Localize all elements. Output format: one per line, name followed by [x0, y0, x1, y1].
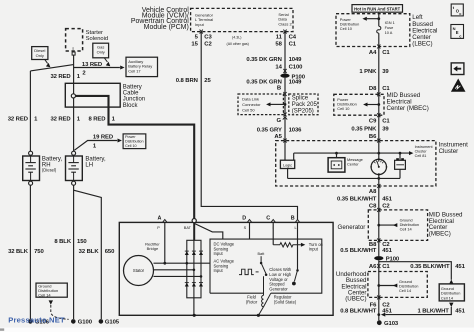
svg-text:C8: C8	[369, 204, 377, 210]
svg-text:1 PNK: 1 PNK	[359, 69, 377, 75]
svg-text:650: 650	[105, 249, 115, 255]
svg-text:Distribution: Distribution	[125, 140, 143, 144]
svg-text:Batt: Batt	[258, 252, 266, 256]
svg-text:C1: C1	[382, 119, 390, 125]
svg-text:Cell 50: Cell 50	[242, 107, 255, 112]
svg-text:A: A	[158, 215, 162, 221]
svg-text:C4: C4	[289, 34, 297, 40]
svg-text:Only: Only	[36, 53, 44, 58]
svg-text:Center (MBEC): Center (MBEC)	[387, 105, 429, 112]
svg-text:39: 39	[382, 127, 389, 133]
svg-text:32 RED: 32 RED	[8, 117, 28, 123]
svg-text:11: 11	[276, 34, 283, 40]
svg-text:A5: A5	[274, 134, 282, 140]
svg-text:32 RED: 32 RED	[50, 117, 70, 123]
svg-text:Splice: Splice	[292, 96, 309, 102]
svg-text:A4: A4	[369, 50, 377, 56]
svg-text:C3: C3	[204, 34, 212, 40]
svg-text:B: B	[277, 86, 281, 92]
svg-text:451: 451	[382, 308, 392, 314]
svg-text:L: L	[295, 226, 297, 230]
svg-text:(4.3L): (4.3L)	[232, 35, 241, 39]
svg-text:G100: G100	[78, 320, 93, 326]
svg-text:25: 25	[204, 78, 211, 84]
svg-text:Logic: Logic	[283, 164, 292, 168]
svg-text:Center: Center	[347, 162, 359, 167]
svg-text:451: 451	[382, 248, 392, 254]
svg-text:Generator: Generator	[269, 286, 288, 291]
svg-text:C1: C1	[289, 42, 297, 48]
svg-text:10 A: 10 A	[385, 30, 393, 35]
svg-text:14: 14	[275, 64, 282, 70]
svg-text:C2: C2	[204, 42, 212, 48]
svg-text:G103: G103	[384, 321, 399, 327]
svg-text:451: 451	[455, 264, 465, 270]
svg-text:Class 2: Class 2	[278, 21, 292, 26]
svg-text:39: 39	[382, 69, 389, 75]
svg-text:B: B	[291, 215, 295, 221]
svg-text:19 RED: 19 RED	[93, 134, 113, 140]
svg-text:Cell 81: Cell 81	[415, 154, 427, 158]
svg-text:P: P	[157, 226, 160, 230]
svg-text:Solenoid: Solenoid	[86, 36, 109, 42]
svg-text:Bridge: Bridge	[147, 246, 159, 251]
svg-text:1049: 1049	[289, 80, 303, 86]
svg-text:s: s	[72, 47, 74, 51]
svg-text:Cluster: Cluster	[439, 148, 459, 155]
svg-text:1036: 1036	[289, 127, 303, 133]
svg-text:0.8 BLK/WHT: 0.8 BLK/WHT	[340, 308, 377, 314]
svg-text:Input: Input	[214, 268, 224, 273]
svg-text:1 BLK/WHT: 1 BLK/WHT	[417, 308, 449, 314]
svg-text:(Solid State): (Solid State)	[274, 299, 297, 304]
svg-text:Data Link: Data Link	[242, 96, 259, 101]
svg-text:Starter: Starter	[86, 30, 103, 36]
svg-text:(All other gas): (All other gas)	[227, 42, 249, 46]
svg-text:G105: G105	[105, 320, 120, 326]
svg-text:58: 58	[275, 42, 282, 48]
svg-text:Cell 10: Cell 10	[337, 106, 350, 111]
svg-text:8 BLK: 8 BLK	[54, 239, 71, 245]
svg-text:0.35 BLK/WHT: 0.35 BLK/WHT	[337, 197, 377, 203]
svg-text:Power: Power	[125, 135, 136, 139]
svg-text:B8: B8	[369, 242, 377, 248]
svg-text:Cell 10: Cell 10	[340, 26, 353, 31]
svg-text:Cell 14: Cell 14	[400, 227, 413, 232]
svg-text:0.5 BLK/WHT: 0.5 BLK/WHT	[340, 248, 377, 254]
svg-text:Cell 17: Cell 17	[128, 68, 141, 73]
svg-text:Generator: Generator	[338, 224, 366, 231]
svg-text:LH: LH	[85, 163, 93, 169]
svg-text:C100: C100	[289, 64, 304, 70]
svg-text:S: S	[244, 226, 247, 230]
svg-text:0.35 GRY: 0.35 GRY	[257, 127, 282, 133]
svg-text:(UBEC): (UBEC)	[345, 296, 366, 303]
svg-text:0.35 DK GRN: 0.35 DK GRN	[246, 57, 281, 63]
svg-text:150: 150	[77, 239, 87, 245]
svg-text:Block: Block	[123, 103, 139, 109]
svg-text:Input: Input	[195, 22, 205, 27]
svg-text:Input: Input	[309, 247, 319, 252]
svg-text:Cell 14: Cell 14	[38, 293, 51, 298]
svg-text:A6: A6	[369, 264, 377, 270]
svg-text:32 BLK: 32 BLK	[79, 249, 100, 255]
svg-text:15: 15	[191, 42, 198, 48]
svg-text:Cell 14: Cell 14	[441, 295, 454, 300]
svg-text:Battery: Battery	[123, 84, 142, 90]
svg-text:Instrument: Instrument	[415, 145, 434, 149]
svg-text:750: 750	[34, 249, 44, 255]
svg-text:(MBEC): (MBEC)	[429, 230, 451, 237]
svg-text:A8: A8	[369, 189, 377, 195]
svg-text:(SP205): (SP205)	[292, 109, 314, 115]
svg-text:C: C	[266, 215, 270, 221]
svg-text:C1: C1	[382, 264, 390, 270]
svg-text:B6: B6	[369, 134, 377, 140]
svg-text:32 BLK: 32 BLK	[8, 249, 29, 255]
svg-text:0.35 BLK/WHT: 0.35 BLK/WHT	[410, 264, 450, 270]
svg-text:8 RED: 8 RED	[88, 117, 105, 123]
svg-text:Only: Only	[97, 50, 105, 55]
svg-text:0.35 PNK: 0.35 PNK	[351, 127, 377, 133]
svg-text:32 RED: 32 RED	[50, 74, 70, 80]
svg-text:(LBEC): (LBEC)	[412, 41, 432, 48]
svg-text:C9: C9	[369, 119, 377, 125]
svg-text:Hot In RUN And START: Hot In RUN And START	[354, 7, 400, 12]
svg-text:BAT: BAT	[184, 226, 192, 230]
svg-text:13 RED: 13 RED	[82, 62, 102, 68]
svg-text:1049: 1049	[289, 57, 303, 63]
svg-text:(Rotor: (Rotor	[246, 299, 258, 304]
svg-text:C2: C2	[382, 204, 390, 210]
svg-text:Cell 14: Cell 14	[399, 288, 412, 293]
svg-text:C2: C2	[382, 242, 390, 248]
svg-text:Module (PCM): Module (PCM)	[144, 24, 189, 31]
svg-text:(Diesel): (Diesel)	[42, 168, 57, 173]
svg-text:G: G	[276, 118, 281, 124]
svg-text:D: D	[242, 215, 246, 221]
svg-text:Pressauto.NET: Pressauto.NET	[8, 316, 65, 325]
svg-text:451: 451	[382, 197, 392, 203]
svg-text:Junction: Junction	[123, 97, 145, 103]
svg-text:0.8 BRN: 0.8 BRN	[176, 78, 198, 84]
svg-text:Cable: Cable	[123, 91, 139, 97]
svg-text:C1: C1	[382, 50, 390, 56]
svg-text:Connector: Connector	[242, 102, 261, 107]
svg-text:Pack 205: Pack 205	[292, 102, 318, 108]
svg-text:D8: D8	[369, 86, 377, 92]
svg-text:Stator: Stator	[133, 268, 145, 273]
svg-text:Cell 10: Cell 10	[125, 144, 136, 148]
svg-text:451: 451	[455, 308, 465, 314]
svg-text:Input: Input	[214, 251, 224, 256]
svg-text:Cluster: Cluster	[415, 150, 428, 154]
